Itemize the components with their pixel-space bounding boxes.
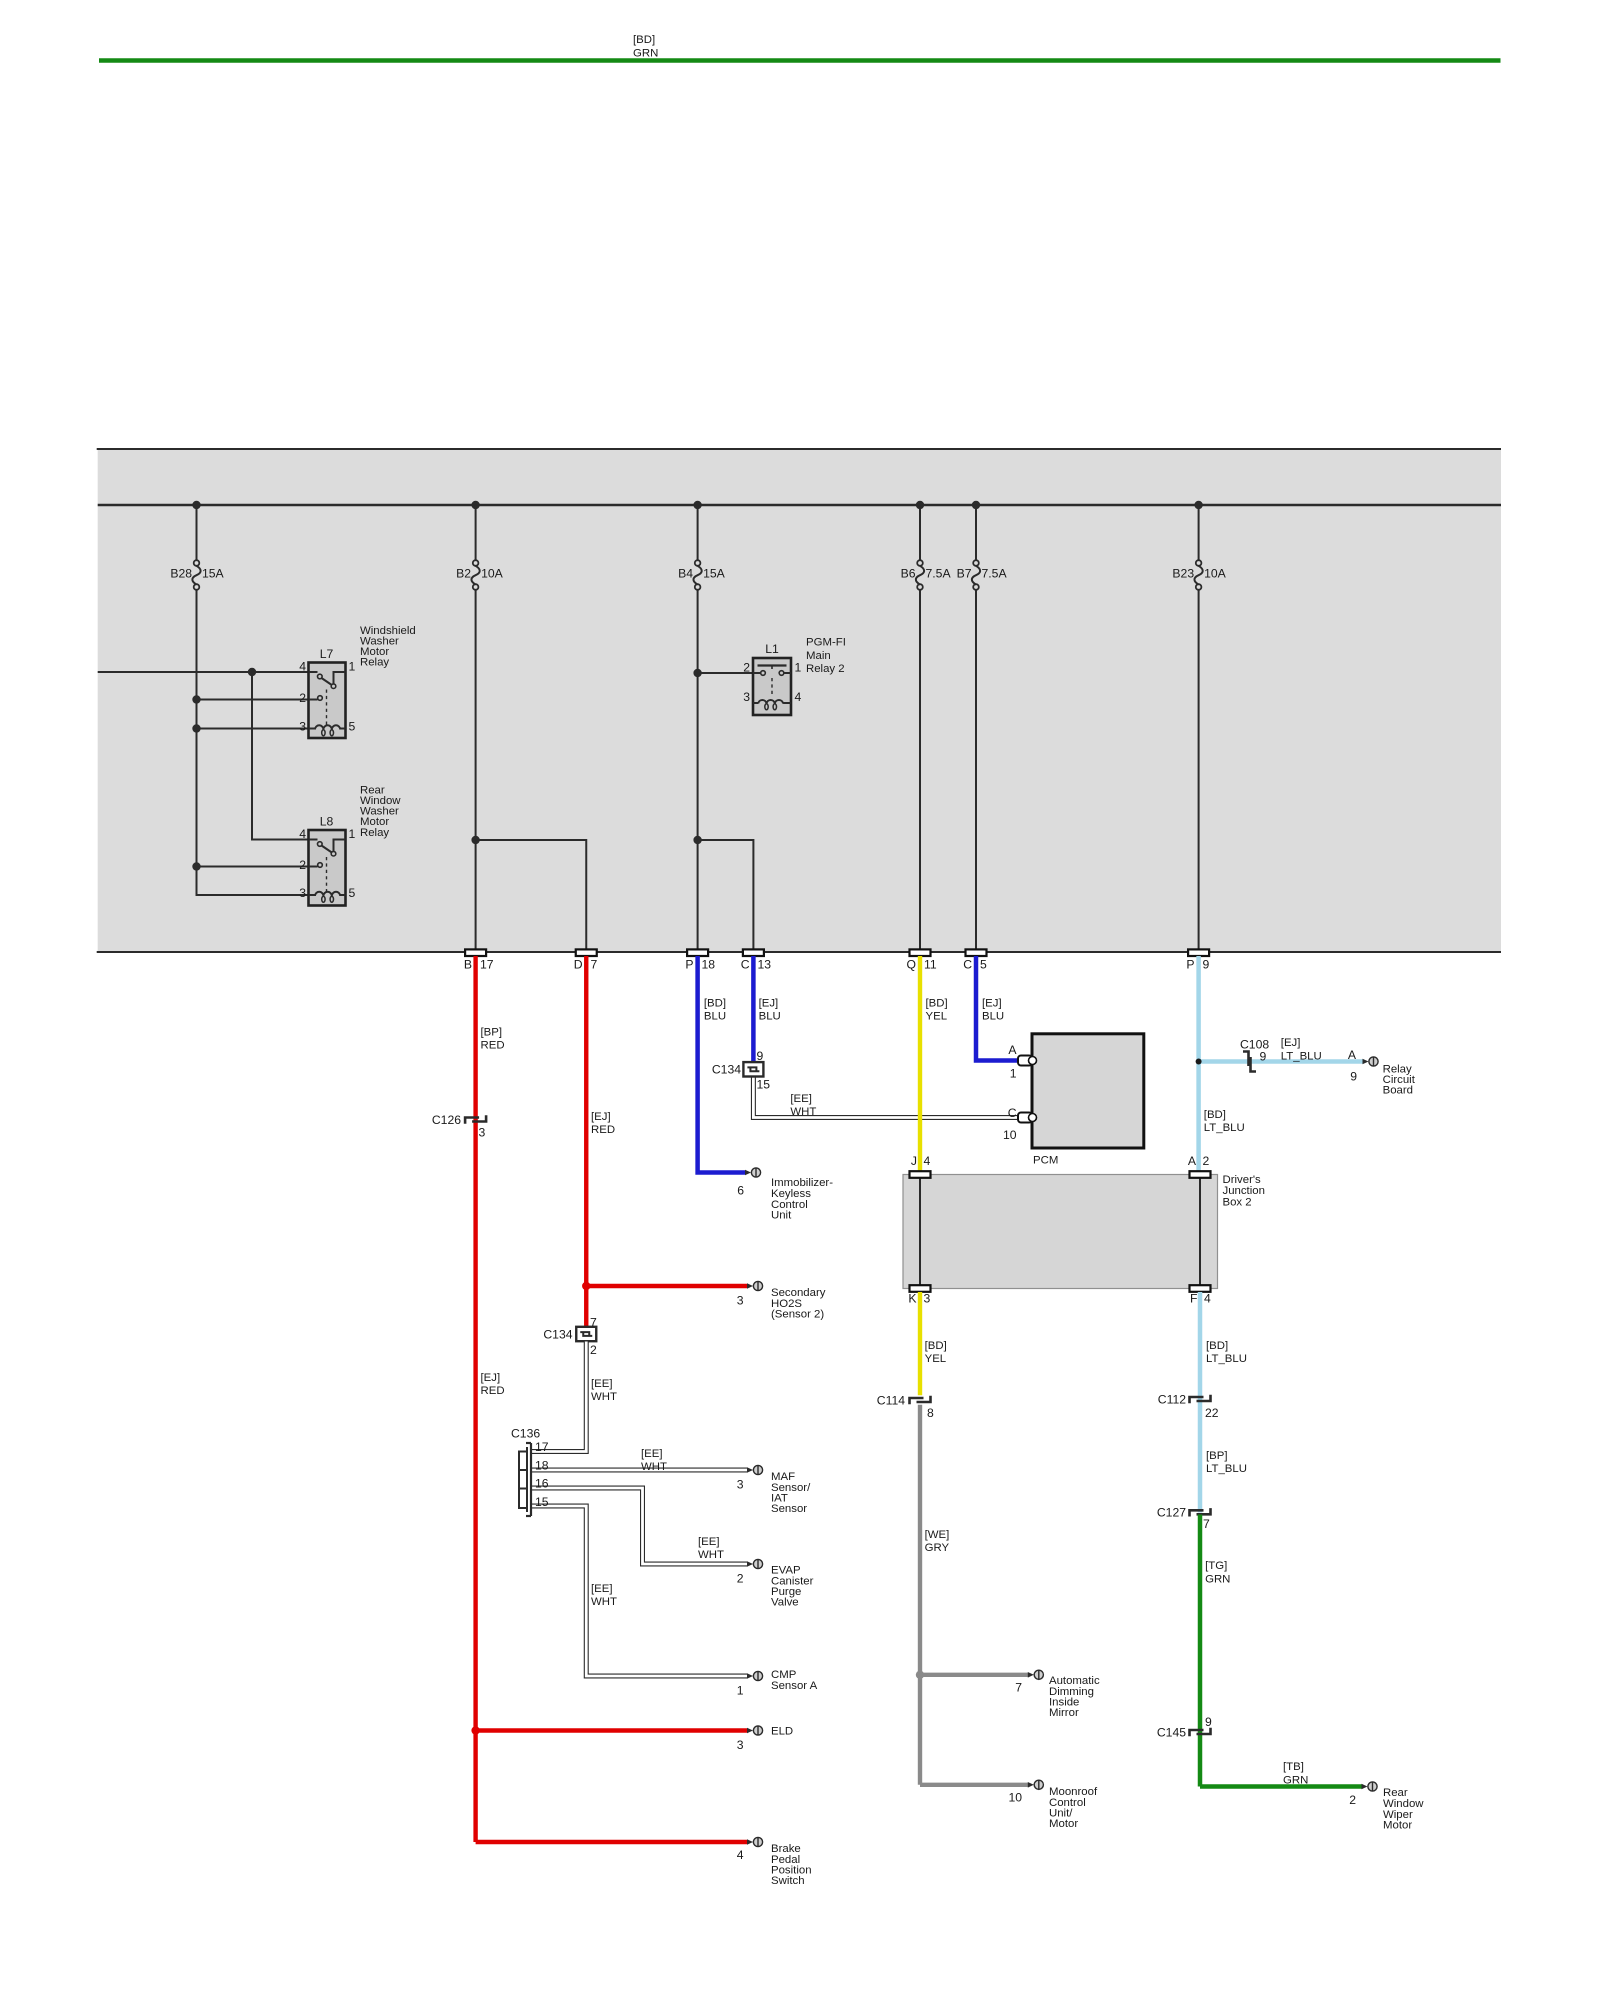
svg-text:Box 2: Box 2: [1223, 1197, 1252, 1209]
svg-text:10A: 10A: [481, 567, 504, 581]
terminal 2 Rear Window Wiper Motor: [1349, 1782, 1424, 1832]
under-dash fuse/relay box (gray panel): [97, 449, 1501, 952]
svg-text:5: 5: [349, 720, 356, 734]
fuse B6 7.5A: [901, 505, 952, 950]
svg-text:A: A: [1348, 1048, 1357, 1062]
svg-text:B23: B23: [1172, 567, 1194, 581]
wire B4 to L1 pin 2: [698, 672, 753, 674]
wire [EJ] LT_BLU branch to Relay Circuit Board: [1199, 1037, 1364, 1062]
svg-text:LT_BLU: LT_BLU: [1281, 1051, 1322, 1063]
relay L1 PGM-FI Main Relay 2: [743, 637, 846, 715]
svg-text:22: 22: [1205, 1406, 1219, 1420]
svg-text:WHT: WHT: [591, 1596, 617, 1608]
junction B28 column to L7 pin 2: [192, 695, 200, 703]
svg-text:C: C: [741, 957, 750, 971]
wire through junction box A2-F4: [1199, 1176, 1201, 1287]
svg-text:9: 9: [1205, 1715, 1212, 1729]
junction on bus at B28: [192, 501, 200, 509]
svg-text:(Sensor 2): (Sensor 2): [771, 1308, 824, 1320]
svg-text:9: 9: [1260, 1049, 1267, 1063]
connector C126 on red wire: [432, 1113, 486, 1140]
junction box pin J 4: [910, 1154, 931, 1178]
svg-text:[EE]: [EE]: [641, 1448, 663, 1460]
fuse B2 10A: [456, 505, 503, 950]
svg-text:10A: 10A: [1204, 567, 1227, 581]
svg-text:[BD]: [BD]: [704, 998, 726, 1010]
svg-text:17: 17: [480, 957, 494, 971]
svg-text:B7: B7: [957, 567, 972, 581]
svg-text:1: 1: [349, 827, 356, 841]
wire GRY branch to Automatic Dimming Inside Mirror: [920, 1673, 1028, 1677]
svg-text:Motor: Motor: [1049, 1818, 1078, 1830]
connector C134 on red wire to C136: [543, 1315, 597, 1357]
svg-text:[BP]: [BP]: [1206, 1450, 1228, 1462]
svg-text:B: B: [464, 957, 472, 971]
svg-text:YEL: YEL: [926, 1011, 948, 1023]
wire [BD] LT_BLU from pin P9 to junction box pin A2: [1199, 956, 1245, 1171]
svg-text:7.5A: 7.5A: [982, 567, 1008, 581]
svg-text:15A: 15A: [202, 567, 225, 581]
connector C136: [511, 1427, 549, 1516]
svg-text:Main: Main: [806, 650, 831, 662]
svg-text:Relay: Relay: [360, 657, 389, 669]
svg-text:Switch: Switch: [771, 1875, 805, 1887]
PCM pin A 1: [1008, 1043, 1036, 1081]
svg-text:C127: C127: [1157, 1506, 1186, 1520]
svg-text:15: 15: [535, 1495, 549, 1509]
svg-text:[EJ]: [EJ]: [481, 1372, 501, 1384]
svg-text:B2: B2: [456, 567, 471, 581]
svg-text:[EJ]: [EJ]: [759, 998, 779, 1010]
wire feed from left edge to L7 pin 4: [98, 671, 309, 673]
svg-text:[EE]: [EE]: [698, 1536, 720, 1548]
svg-text:3: 3: [924, 1291, 931, 1305]
svg-text:7: 7: [1203, 1517, 1210, 1531]
terminal 3 Secondary HO2S (Sensor 2): [737, 1281, 826, 1320]
connector C112: [1158, 1392, 1219, 1420]
wire B28 to L7 pin 2: [197, 699, 309, 701]
svg-text:A: A: [1008, 1043, 1017, 1057]
svg-text:LT_BLU: LT_BLU: [1206, 1353, 1247, 1365]
svg-text:L1: L1: [765, 642, 779, 656]
junction on bus at B23: [1194, 501, 1202, 509]
wire [EE] WHT from C134 down to C136 pin 17: [531, 1342, 617, 1452]
svg-text:D: D: [574, 957, 583, 971]
svg-text:9: 9: [1203, 957, 1210, 971]
svg-text:[BD]: [BD]: [926, 998, 948, 1010]
svg-text:7: 7: [591, 957, 598, 971]
svg-text:RED: RED: [481, 1385, 505, 1397]
pin C 13: [741, 949, 772, 971]
svg-text:GRN: GRN: [1205, 1573, 1230, 1585]
svg-text:3: 3: [479, 1125, 486, 1139]
svg-text:PGM-FI: PGM-FI: [806, 637, 846, 649]
wire [EE] WHT from C136 pin 16 to EVAP valve: [531, 1488, 748, 1564]
pin C 5: [963, 949, 987, 971]
wire [EE] WHT from C134 to PCM pin 10: [753, 1076, 1017, 1118]
svg-text:GRN: GRN: [1283, 1774, 1308, 1786]
svg-text:15A: 15A: [703, 567, 726, 581]
svg-text:[TG]: [TG]: [1205, 1560, 1227, 1572]
svg-text:2: 2: [737, 1571, 744, 1585]
svg-text:18: 18: [535, 1458, 549, 1472]
svg-text:2: 2: [1349, 1793, 1356, 1807]
svg-text:2: 2: [1203, 1154, 1210, 1168]
svg-text:[BP]: [BP]: [481, 1027, 503, 1039]
pin P 9: [1186, 949, 1209, 971]
wire [TG] GRN from C127 down to C145: [1200, 1515, 1230, 1787]
svg-text:1: 1: [737, 1683, 744, 1697]
svg-text:P: P: [1186, 957, 1194, 971]
svg-text:WHT: WHT: [790, 1106, 816, 1118]
svg-text:[EJ]: [EJ]: [1281, 1037, 1301, 1049]
wire branch down to L8 pin 4: [252, 672, 309, 840]
svg-text:4: 4: [795, 690, 802, 704]
wire B28 to L8 pin 2: [197, 866, 309, 868]
svg-text:4: 4: [737, 1848, 744, 1862]
svg-text:2: 2: [590, 1343, 597, 1357]
svg-text:Sensor A: Sensor A: [771, 1680, 818, 1692]
junction red wire to Secondary HO2S: [582, 1282, 590, 1290]
svg-text:LT_BLU: LT_BLU: [1204, 1122, 1245, 1134]
svg-text:3: 3: [743, 690, 750, 704]
svg-text:9: 9: [757, 1049, 764, 1063]
svg-text:P: P: [685, 957, 693, 971]
fuse B28 15A: [170, 505, 224, 895]
svg-text:Motor: Motor: [1383, 1820, 1412, 1832]
PCM module: [1032, 1034, 1144, 1167]
svg-text:18: 18: [702, 957, 716, 971]
terminal 6 Immobilizer-Keyless Control Unit: [737, 1168, 833, 1222]
svg-text:4: 4: [924, 1154, 931, 1168]
svg-text:A: A: [1188, 1154, 1197, 1168]
svg-text:[TB]: [TB]: [1283, 1761, 1304, 1773]
svg-text:17: 17: [535, 1440, 549, 1454]
wire RED branch to Secondary HO2S terminal: [586, 1284, 747, 1288]
svg-text:[BD]: [BD]: [633, 34, 655, 46]
svg-text:4: 4: [299, 660, 306, 674]
svg-text:BLU: BLU: [982, 1011, 1004, 1023]
terminal 2 EVAP Canister Purge Valve: [737, 1559, 814, 1608]
svg-text:Unit: Unit: [771, 1210, 792, 1222]
fuse B23 10A: [1172, 505, 1226, 950]
svg-text:BLU: BLU: [704, 1011, 726, 1023]
wire [BD] YEL from junction box pin K3 to C114: [920, 1292, 947, 1395]
svg-text:11: 11: [924, 957, 937, 971]
junction light blue wire at C108 branch: [1196, 1059, 1202, 1065]
svg-text:C136: C136: [511, 1427, 540, 1441]
connector C108 on light blue wire: [1240, 1037, 1269, 1071]
junction B28 column to L8 pin 2: [192, 862, 200, 870]
fuse B4 15A: [678, 505, 725, 950]
svg-text:[EE]: [EE]: [790, 1093, 812, 1105]
svg-text:Driver's: Driver's: [1223, 1174, 1262, 1186]
junction red wire to ELD: [471, 1726, 479, 1734]
svg-text:3: 3: [299, 720, 306, 734]
svg-text:WHT: WHT: [698, 1549, 724, 1561]
svg-text:Mirror: Mirror: [1049, 1707, 1079, 1719]
svg-text:Relay 2: Relay 2: [806, 663, 845, 675]
svg-text:9: 9: [1350, 1069, 1357, 1083]
svg-text:13: 13: [758, 957, 772, 971]
svg-text:[EE]: [EE]: [591, 1378, 613, 1390]
junction on L7 pin4 feed: [248, 668, 256, 676]
svg-text:1: 1: [349, 660, 356, 674]
svg-text:1: 1: [1010, 1066, 1017, 1080]
wire [EE] WHT from C136 pin 15 to CMP Sensor A: [531, 1506, 748, 1676]
svg-text:4: 4: [1204, 1291, 1211, 1305]
svg-text:B4: B4: [678, 567, 693, 581]
pin Q 11: [907, 949, 937, 971]
wire RED corner to Brake Pedal Position Switch: [476, 1840, 748, 1844]
connector C134 on blue wire: [712, 1049, 770, 1092]
wire B4 branch to pin C13: [698, 840, 754, 950]
svg-text:LT_BLU: LT_BLU: [1206, 1463, 1247, 1475]
pin P 18: [685, 949, 715, 971]
relay L7 Windshield Washer Motor Relay: [299, 625, 416, 738]
connector C127: [1157, 1506, 1211, 1532]
junction on bus at B7: [972, 501, 980, 509]
terminal 7 Automatic Dimming Inside Mirror: [1015, 1670, 1100, 1719]
terminal 1 CMP Sensor A: [737, 1669, 818, 1697]
svg-text:WHT: WHT: [641, 1461, 667, 1473]
svg-text:3: 3: [737, 1738, 744, 1752]
terminal 3 MAF Sensor/IAT Sensor: [737, 1465, 811, 1515]
svg-text:[BD]: [BD]: [925, 1340, 947, 1352]
svg-text:C145: C145: [1157, 1725, 1186, 1739]
svg-text:6: 6: [737, 1183, 744, 1197]
svg-text:3: 3: [737, 1477, 744, 1491]
junction B4 column branch: [693, 836, 701, 844]
svg-text:2: 2: [743, 661, 750, 675]
svg-text:Valve: Valve: [771, 1597, 799, 1609]
wire RED branch to ELD terminal: [476, 1728, 748, 1732]
svg-text:3: 3: [299, 886, 306, 900]
svg-text:YEL: YEL: [925, 1353, 947, 1365]
svg-text:Board: Board: [1383, 1084, 1413, 1096]
wire [WE] GRY from C114 down: [920, 1405, 949, 1785]
svg-text:10: 10: [1003, 1128, 1017, 1142]
junction box pin F 4: [1190, 1285, 1212, 1305]
svg-text:Junction: Junction: [1223, 1185, 1265, 1197]
junction box pin K 3: [908, 1285, 930, 1305]
wire [EJ] BLU from pin C5 to PCM pin 1: [976, 956, 1017, 1061]
wire [BD] BLU from pin P18 to Immobilizer unit: [698, 956, 746, 1173]
svg-text:L7: L7: [320, 647, 334, 661]
pin B 17: [464, 949, 494, 971]
svg-text:7: 7: [1015, 1681, 1022, 1695]
svg-text:[EE]: [EE]: [591, 1583, 613, 1595]
svg-text:[EJ]: [EJ]: [591, 1111, 611, 1123]
wire [BD] GRN (top horizontal): [99, 34, 1501, 60]
terminal A 9 Relay Circuit Board: [1348, 1048, 1416, 1097]
junction B28 column to L7 pin 3: [192, 724, 200, 732]
svg-text:3: 3: [737, 1293, 744, 1307]
svg-text:GRN: GRN: [633, 47, 658, 59]
svg-text:C114: C114: [877, 1393, 905, 1407]
Driver's Junction Box 2: [903, 1174, 1265, 1289]
pin D 7: [574, 949, 598, 971]
svg-text:7.5A: 7.5A: [926, 567, 952, 581]
svg-text:J: J: [911, 1154, 917, 1168]
junction gray wire to mirror: [916, 1671, 924, 1679]
svg-text:B6: B6: [901, 567, 916, 581]
fuse B7 7.5A: [957, 505, 1008, 950]
wire [EE] WHT from C136 pin 18 to MAF Sensor: [531, 1448, 748, 1473]
svg-text:RED: RED: [591, 1124, 615, 1136]
svg-text:C: C: [963, 957, 972, 971]
svg-text:WHT: WHT: [591, 1391, 617, 1403]
wire B28 to L7 pin 3: [197, 728, 309, 730]
svg-text:Q: Q: [907, 957, 916, 971]
wire [BD] LT_BLU from junction box pin F4 to C112: [1200, 1292, 1247, 1513]
svg-text:C134: C134: [543, 1327, 572, 1341]
svg-text:[WE]: [WE]: [925, 1529, 950, 1541]
terminal 3 ELD: [737, 1725, 793, 1752]
svg-text:7: 7: [590, 1315, 597, 1329]
wire [BP]/[EJ] RED from pin B17 down: [476, 956, 505, 1842]
svg-text:C134: C134: [712, 1062, 741, 1076]
junction B4 column to L1 pin 2: [693, 669, 701, 677]
svg-text:5: 5: [349, 886, 356, 900]
svg-text:C126: C126: [432, 1113, 461, 1127]
svg-text:PCM: PCM: [1033, 1155, 1058, 1167]
svg-text:1: 1: [795, 661, 802, 675]
svg-text:[BD]: [BD]: [1204, 1109, 1226, 1121]
svg-text:C: C: [1008, 1106, 1017, 1120]
svg-text:8: 8: [927, 1406, 934, 1420]
svg-text:16: 16: [535, 1477, 549, 1491]
svg-text:GRY: GRY: [925, 1542, 950, 1554]
wire power bus inside fuse box: [98, 504, 1501, 507]
wire B28 column corner to L8 pin 3: [197, 867, 309, 896]
wire [EJ] BLU from pin C13 to connector C134: [753, 956, 780, 1062]
svg-text:ELD: ELD: [771, 1725, 793, 1737]
svg-text:L8: L8: [320, 814, 334, 828]
svg-text:C112: C112: [1158, 1392, 1186, 1406]
svg-text:RED: RED: [481, 1040, 505, 1052]
wire through junction box J4-K3: [919, 1176, 921, 1287]
wire [BD] YEL from pin Q11 to junction box pin J4: [920, 956, 948, 1171]
connector C145: [1157, 1715, 1212, 1740]
terminal 4 Brake Pedal Position Switch: [737, 1837, 812, 1887]
wire B2 branch to pin D7: [476, 840, 587, 950]
svg-text:2: 2: [299, 691, 306, 705]
svg-text:Relay: Relay: [360, 827, 389, 839]
junction on bus at B6: [916, 501, 924, 509]
svg-text:10: 10: [1008, 1791, 1022, 1805]
svg-text:4: 4: [299, 827, 306, 841]
junction box pin A 2: [1188, 1154, 1211, 1178]
svg-text:15: 15: [757, 1077, 771, 1091]
svg-text:Sensor: Sensor: [771, 1503, 807, 1515]
wire [EJ] RED from pin D7 down: [586, 956, 615, 1327]
relay L8 Rear Window Washer Motor Relay: [299, 784, 401, 905]
junction B2 column branch: [471, 836, 479, 844]
svg-text:B28: B28: [170, 567, 192, 581]
junction on bus at B4: [693, 501, 701, 509]
connector C114: [877, 1393, 934, 1420]
PCM pin C 10: [1003, 1106, 1037, 1142]
svg-text:F: F: [1190, 1291, 1197, 1305]
terminal 10 Moonroof Control Unit/Motor: [1008, 1780, 1098, 1830]
svg-text:[BD]: [BD]: [1206, 1340, 1228, 1352]
svg-text:K: K: [908, 1291, 916, 1305]
wire GRY corner to Moonroof Control Unit: [920, 1783, 1028, 1787]
wire [TB] GRN to Rear Window Wiper Motor: [1200, 1761, 1363, 1786]
svg-text:BLU: BLU: [759, 1011, 781, 1023]
junction on bus at B2: [471, 501, 479, 509]
svg-text:5: 5: [980, 957, 987, 971]
svg-text:2: 2: [299, 858, 306, 872]
svg-text:[EJ]: [EJ]: [982, 998, 1002, 1010]
